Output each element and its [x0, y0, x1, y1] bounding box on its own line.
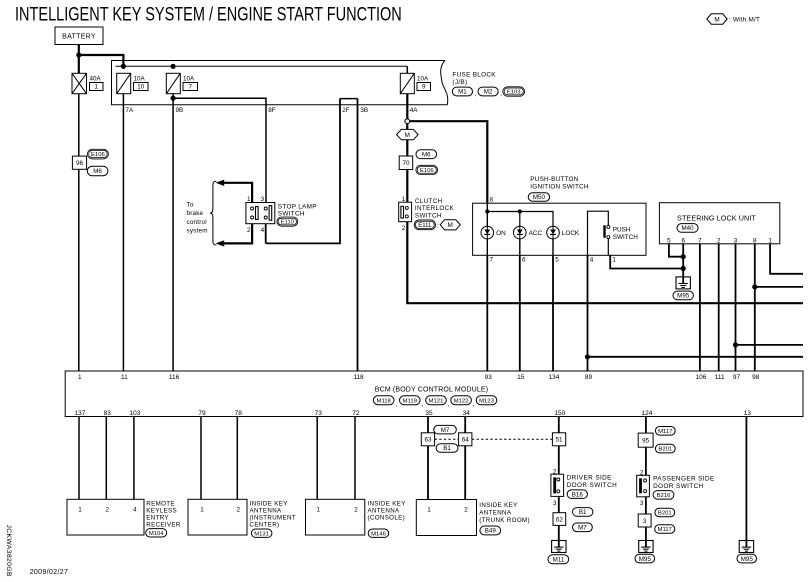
svg-text:E111: E111	[418, 223, 432, 229]
svg-text:97: 97	[733, 374, 741, 381]
wire steering pin 5	[669, 244, 683, 257]
svg-text:CENTER): CENTER)	[250, 521, 280, 528]
svg-text:93: 93	[485, 374, 493, 381]
svg-text:REMOTE: REMOTE	[146, 500, 175, 507]
svg-text:M118: M118	[377, 398, 392, 404]
inside key antenna instrument center box	[188, 499, 247, 535]
svg-text:SWITCH: SWITCH	[278, 211, 305, 218]
svg-text:B16: B16	[572, 491, 584, 498]
svg-text:124: 124	[641, 410, 652, 417]
svg-text:M117: M117	[658, 429, 672, 435]
wire 2F-3B link	[340, 98, 358, 100]
connector M2	[478, 87, 498, 96]
connector M122	[451, 396, 472, 405]
svg-text:M2: M2	[484, 89, 493, 96]
ground M95 right	[739, 541, 753, 553]
fuse 40A value box 1	[90, 83, 104, 91]
wire steering pin 7 to BCM pin 106	[699, 244, 701, 371]
ground M11	[552, 541, 566, 553]
svg-text:134: 134	[549, 374, 560, 381]
wire bus to fuse 9	[406, 66, 408, 73]
svg-text:M7: M7	[578, 525, 587, 532]
svg-text:3: 3	[261, 196, 265, 203]
svg-text:M122: M122	[454, 398, 469, 404]
svg-text:83: 83	[104, 410, 112, 417]
connector M6 right	[416, 150, 437, 159]
svg-text:70: 70	[402, 160, 410, 167]
title	[15, 3, 402, 26]
wire driver door switch to ground M11	[558, 496, 560, 540]
wire 4A branch circle to push button pin 8	[410, 121, 488, 203]
wire steering pin 3 to BCM pin 97	[735, 244, 737, 371]
svg-text:B216: B216	[657, 493, 671, 499]
svg-text:(TRUNK ROOM): (TRUNK ROOM)	[479, 517, 530, 524]
svg-text:2: 2	[354, 506, 358, 513]
svg-text:72: 72	[352, 410, 360, 417]
svg-text:3: 3	[553, 500, 557, 507]
wire dashed link 63-64	[435, 438, 459, 440]
svg-text:7: 7	[698, 237, 702, 244]
svg-text:10A: 10A	[134, 76, 146, 83]
connector M117 lower	[655, 525, 675, 534]
wire BCM pin 72 to console antenna pin 2	[354, 417, 356, 500]
svg-text:2009/02/27: 2009/02/27	[30, 569, 69, 576]
svg-text:: With M/T: : With M/T	[729, 17, 760, 24]
svg-text:,: ,	[395, 401, 397, 408]
svg-text:system: system	[187, 228, 208, 235]
connector M121	[426, 396, 447, 405]
svg-text:(J/B): (J/B)	[452, 79, 467, 86]
fuse block J/B outline	[112, 61, 448, 105]
steering lock unit box	[659, 203, 779, 244]
svg-text:M: M	[448, 222, 453, 229]
svg-text:brake: brake	[187, 210, 204, 217]
wire M50 pin 5 to BCM pin 134	[552, 255, 554, 371]
node M50 pin 4 branch	[585, 354, 590, 359]
svg-text:1: 1	[200, 506, 204, 513]
svg-text:M6: M6	[422, 151, 431, 158]
svg-text:B201: B201	[658, 447, 672, 453]
svg-text:INTERLOCK: INTERLOCK	[415, 205, 455, 212]
connector E103	[503, 87, 525, 96]
connector M117	[655, 427, 675, 436]
svg-text:62: 62	[556, 516, 564, 523]
svg-text:ANTENNA: ANTENNA	[368, 507, 401, 514]
svg-text:FUSE BLOCK: FUSE BLOCK	[452, 71, 496, 78]
wire BCM pin 34 to trunk antenna pin 2	[464, 417, 466, 500]
wire BCM pin 73 to console antenna pin 1	[316, 417, 318, 500]
svg-text:118: 118	[353, 374, 364, 381]
connector 64 in-line	[459, 433, 472, 446]
wire passenger door switch to ground M95	[645, 497, 647, 541]
svg-text:,: ,	[475, 91, 477, 98]
connector E110	[277, 217, 298, 226]
node M50 bus ON	[485, 209, 489, 213]
connector E111	[414, 220, 435, 230]
svg-text:5: 5	[555, 257, 559, 264]
svg-text:PASSENGER SIDE: PASSENGER SIDE	[653, 476, 715, 483]
wire 4A fuse 9 output	[406, 94, 408, 119]
svg-text:4: 4	[261, 227, 265, 234]
figure number	[5, 525, 12, 577]
hexagon M on 4A line	[397, 129, 419, 139]
svg-text:73: 73	[315, 410, 323, 417]
wire push switch loop	[588, 211, 609, 255]
svg-text:8F: 8F	[268, 107, 276, 114]
passenger side door switch	[637, 475, 650, 497]
node bus fuse 7	[171, 64, 176, 69]
svg-text:106: 106	[695, 374, 706, 381]
wire stop lamp pin 1 to brake system arrow	[223, 183, 252, 203]
svg-text:34: 34	[463, 410, 471, 417]
connector M40	[677, 224, 698, 233]
svg-text:111: 111	[715, 374, 725, 381]
connector M95 right	[737, 554, 757, 563]
svg-text:2: 2	[717, 237, 721, 244]
connector 95 in-line	[638, 433, 653, 447]
svg-text:M: M	[714, 16, 719, 23]
wire BCM pin 150 to driver door switch	[558, 417, 560, 475]
svg-text:IGNITION SWITCH: IGNITION SWITCH	[530, 183, 589, 190]
svg-text:M95: M95	[639, 556, 652, 563]
svg-text:6: 6	[681, 237, 685, 244]
svg-text:M146: M146	[371, 531, 386, 537]
remote keyless entry receiver box	[67, 499, 144, 535]
svg-text:,: ,	[500, 91, 502, 98]
svg-text:1: 1	[247, 196, 251, 203]
svg-text:116: 116	[169, 374, 180, 381]
svg-text:RECEIVER: RECEIVER	[146, 521, 181, 528]
connector E106	[87, 149, 108, 159]
svg-text:M40: M40	[681, 225, 694, 232]
connector M1	[452, 87, 472, 96]
wire BCM pin 78 to instrument antenna pin 2	[236, 417, 238, 500]
svg-text:M95: M95	[741, 556, 754, 563]
svg-text:1: 1	[768, 237, 772, 244]
wire M50 pin 4 to BCM pin 89	[587, 255, 589, 371]
wire steering pin 8 to BCM pin 98	[754, 244, 756, 371]
svg-text:95: 95	[642, 437, 650, 444]
svg-text:103: 103	[129, 410, 140, 417]
svg-text:M95: M95	[677, 293, 690, 300]
wire battery to fuse block	[79, 55, 124, 66]
svg-text:3B: 3B	[360, 107, 368, 114]
connector B1 driver	[573, 508, 593, 517]
svg-text:13: 13	[744, 410, 752, 417]
wire 2F to stop lamp switch pin 4	[266, 99, 340, 244]
connector M7 driver	[573, 523, 593, 532]
connector B16	[567, 490, 587, 499]
svg-text:(CONSOLE): (CONSOLE)	[368, 514, 406, 521]
svg-text:1: 1	[95, 84, 99, 91]
svg-text:E106: E106	[420, 168, 434, 174]
connector M123	[476, 396, 497, 405]
svg-text:M50: M50	[533, 194, 546, 201]
wire 9B to BCM pin 116	[172, 94, 174, 371]
svg-text:STOP LAMP: STOP LAMP	[278, 203, 317, 210]
connector 51 in-line	[552, 433, 565, 446]
svg-text:7: 7	[490, 257, 494, 264]
node fuse 7 output	[171, 96, 176, 101]
node ground link	[681, 266, 686, 271]
wire BCM pin 124 to passenger door switch	[645, 417, 647, 476]
svg-text:CLUTCH: CLUTCH	[415, 198, 443, 205]
svg-text:E103: E103	[507, 90, 521, 96]
connector M7	[434, 425, 457, 434]
svg-text::: :	[437, 223, 439, 230]
wire steering pin 6 to ground	[682, 244, 684, 277]
svg-text:1: 1	[316, 506, 320, 513]
fuse 10 value box	[134, 83, 149, 91]
wire 8F from fuse 7 to stop lamp switch pin 3	[173, 98, 266, 202]
inside key antenna console box	[306, 499, 365, 535]
svg-text:1: 1	[78, 374, 82, 381]
wire M50 internal bus	[486, 203, 488, 226]
svg-text:M119: M119	[403, 398, 417, 404]
driver side door switch	[551, 474, 564, 496]
svg-text:PUSH: PUSH	[613, 227, 631, 234]
ground M95 steering	[676, 277, 690, 289]
connector M118	[373, 396, 394, 405]
svg-text:35: 35	[425, 410, 433, 417]
indicator LOCK	[547, 226, 560, 239]
indicator ON	[481, 226, 494, 239]
svg-text:,: ,	[473, 401, 475, 408]
svg-text:M121: M121	[429, 398, 444, 404]
connector 3 in-line	[638, 514, 651, 527]
node steering pin 8 branch	[752, 284, 757, 289]
svg-text:DRIVER SIDE: DRIVER SIDE	[567, 475, 612, 482]
svg-text:DOOR SWITCH: DOOR SWITCH	[653, 483, 704, 490]
svg-text:51: 51	[556, 437, 564, 444]
svg-text:INTELLIGENT KEY SYSTEM / ENGIN: INTELLIGENT KEY SYSTEM / ENGINE START FU…	[15, 3, 402, 26]
svg-text:M6: M6	[93, 168, 102, 175]
svg-text:BCM (BODY CONTROL MODULE): BCM (BODY CONTROL MODULE)	[375, 386, 488, 393]
svg-text:10: 10	[137, 84, 144, 91]
svg-text:ANTENNA: ANTENNA	[479, 510, 512, 517]
svg-text:4: 4	[590, 257, 594, 264]
svg-text:3: 3	[734, 237, 738, 244]
wire BCM pin 79 to instrument antenna pin 1	[200, 417, 202, 500]
connector B49	[480, 526, 501, 535]
node 4A branch	[405, 119, 410, 124]
connector M6	[87, 166, 108, 176]
indicator ACC	[514, 226, 527, 239]
wire 3B to BCM pin 118	[357, 99, 359, 371]
fuse 40A	[72, 73, 87, 93]
fuse 10A 7	[166, 73, 180, 93]
wire M50 pin 7 to BCM pin 93	[486, 255, 488, 371]
ground M95 passenger	[639, 541, 653, 553]
fuse 7 value box	[183, 83, 198, 91]
svg-text:JCKWA3820GB: JCKWA3820GB	[5, 525, 12, 577]
fuse 10A 10	[117, 73, 131, 93]
wire dashed link 64-51	[472, 438, 553, 440]
connector B201	[655, 444, 675, 453]
svg-text:B1: B1	[579, 509, 587, 516]
svg-text:6: 6	[522, 257, 526, 264]
svg-text:SWITCH: SWITCH	[613, 234, 639, 241]
node M50 bus ACC	[518, 209, 522, 213]
clutch interlock switch	[399, 202, 412, 222]
svg-text:2F: 2F	[342, 107, 350, 114]
svg-text:M123: M123	[479, 398, 494, 404]
svg-text:ON: ON	[496, 230, 506, 237]
svg-text:1: 1	[78, 506, 82, 513]
svg-text:98: 98	[752, 374, 760, 381]
wire M50 pin 6 to BCM pin 15	[519, 255, 521, 371]
svg-text:PUSH-BUTTON: PUSH-BUTTON	[530, 176, 578, 183]
svg-text:M131: M131	[254, 531, 269, 537]
svg-text:STEERING LOCK UNIT: STEERING LOCK UNIT	[677, 213, 756, 222]
wire M50 pin 89 right stub	[588, 356, 804, 358]
svg-text:137: 137	[75, 410, 86, 417]
svg-text:BATTERY: BATTERY	[62, 34, 96, 41]
arrow to brake control system lower	[216, 240, 225, 246]
svg-text:INSIDE KEY: INSIDE KEY	[250, 500, 288, 507]
connector 63 in-line	[421, 433, 434, 446]
svg-text:7A: 7A	[126, 107, 135, 114]
wire BCM pin 103 to receiver pin 4	[133, 417, 135, 500]
svg-text:M1: M1	[458, 89, 467, 96]
svg-text:LOCK: LOCK	[562, 230, 580, 237]
wire steering pin 1 right stub	[770, 244, 803, 274]
svg-text:1: 1	[402, 196, 406, 203]
connector M11	[548, 555, 569, 564]
connector E106 right	[416, 165, 438, 174]
svg-text:B201: B201	[658, 511, 672, 517]
battery	[55, 27, 103, 45]
svg-text:KEYLESS: KEYLESS	[146, 507, 177, 514]
hexagon M clutch	[440, 220, 460, 230]
wire 4A down through clutch switch	[406, 124, 408, 203]
svg-text:control: control	[187, 219, 207, 226]
svg-text:,: ,	[448, 401, 450, 408]
connector M119	[400, 396, 421, 405]
arrow to brake control system upper	[216, 180, 225, 186]
fuse block bus bar	[116, 65, 408, 67]
fuse 9 value box	[417, 83, 431, 91]
connector M50	[528, 193, 549, 202]
wire M50 pin 1 to ground node	[610, 255, 683, 268]
svg-text:150: 150	[554, 410, 565, 417]
node bus fuse 10	[121, 64, 126, 69]
connector M95	[673, 291, 693, 300]
connector M146	[368, 529, 389, 537]
svg-text:M7: M7	[441, 427, 450, 434]
connector M104	[146, 529, 167, 537]
svg-text:2: 2	[106, 506, 110, 513]
wire steering pin 2 to BCM pin 111	[718, 244, 720, 371]
connector M131	[251, 529, 272, 537]
connector B201 lower	[655, 508, 675, 517]
svg-text:8: 8	[490, 196, 494, 203]
svg-text:9B: 9B	[176, 107, 184, 114]
svg-text:4A: 4A	[410, 107, 419, 114]
wire BCM pin 13 to ground M95	[745, 417, 747, 541]
svg-text:78: 78	[235, 410, 243, 417]
node battery junction	[76, 52, 81, 57]
connector 96 in-line	[72, 156, 86, 169]
wire push switch lower contact to pin 1	[607, 239, 609, 256]
svg-text:89: 89	[585, 374, 593, 381]
svg-text:DOOR SWITCH: DOOR SWITCH	[567, 482, 618, 489]
svg-text:2: 2	[247, 227, 251, 234]
wire steering pin 3 right stub	[736, 344, 804, 346]
svg-text:3: 3	[640, 500, 644, 507]
wire 40A fuse output to BCM pin 1	[78, 94, 80, 371]
wire stop lamp pin 4 drop	[265, 224, 267, 244]
connector 70 in-line	[399, 156, 413, 170]
svg-text:10A: 10A	[417, 76, 429, 83]
wire battery feed	[78, 45, 80, 74]
inside key antenna trunk room box	[416, 500, 476, 536]
svg-text:10A: 10A	[183, 76, 195, 83]
svg-text:M: M	[405, 132, 410, 139]
svg-text:ENTRY: ENTRY	[146, 514, 169, 521]
wire BCM pin 83 to receiver pin 2	[105, 417, 107, 500]
svg-text:ACC: ACC	[529, 230, 543, 237]
svg-text:INSIDE KEY: INSIDE KEY	[479, 502, 517, 509]
svg-text:9: 9	[422, 84, 426, 91]
wire clutch switch to right stub	[407, 222, 803, 304]
svg-text:SWITCH: SWITCH	[415, 212, 442, 219]
svg-text:INSIDE KEY: INSIDE KEY	[368, 500, 406, 507]
wire steering pin 8 right stub	[755, 286, 803, 288]
svg-text:5: 5	[667, 237, 671, 244]
svg-text:64: 64	[462, 437, 470, 444]
node steering pins 5-6	[681, 254, 686, 259]
svg-text:B1: B1	[443, 445, 451, 452]
svg-text:7: 7	[189, 84, 193, 91]
svg-text:E110: E110	[281, 220, 295, 226]
wire diode outputs	[486, 239, 488, 255]
connector M95 passenger	[635, 554, 655, 563]
legend With M/T symbol	[707, 14, 727, 24]
op box push-button ignition switch M50	[473, 203, 646, 255]
stop lamp switch E110	[246, 203, 275, 224]
svg-text:To: To	[187, 201, 194, 208]
svg-text:1: 1	[612, 257, 616, 264]
svg-text:2: 2	[464, 506, 468, 513]
connector 62 in-line	[553, 513, 566, 526]
svg-text:M104: M104	[149, 531, 164, 537]
svg-text:M117: M117	[658, 527, 672, 533]
svg-text:8: 8	[753, 237, 757, 244]
wire stop lamp pin 2 to brake system arrow	[223, 224, 252, 244]
brace to brake control system	[210, 181, 216, 245]
wire BCM pin 35 to trunk antenna pin 1	[427, 417, 429, 500]
svg-text:96: 96	[76, 160, 84, 167]
svg-text:B49: B49	[485, 528, 497, 535]
connector B1	[436, 444, 458, 453]
fuse 10A 9	[400, 73, 414, 93]
svg-text:,: ,	[422, 401, 424, 408]
svg-text:63: 63	[424, 437, 432, 444]
svg-text:M11: M11	[553, 556, 565, 563]
svg-text:4: 4	[133, 506, 137, 513]
svg-text:3: 3	[643, 518, 647, 525]
svg-text:2: 2	[402, 225, 406, 232]
svg-text:15: 15	[517, 374, 525, 381]
svg-text:79: 79	[198, 410, 206, 417]
wire 7A to BCM pin 11	[122, 94, 124, 371]
svg-text:40A: 40A	[90, 76, 102, 83]
push switch	[603, 225, 605, 237]
BCM body control module box	[65, 371, 803, 417]
connector B216	[653, 491, 674, 500]
svg-text:ANTENNA: ANTENNA	[250, 507, 283, 514]
